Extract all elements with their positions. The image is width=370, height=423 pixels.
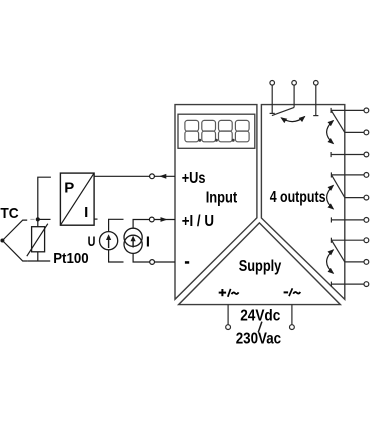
- thermocouple TC lower leg: [2, 241, 27, 262]
- wire junction up and to P/I upper stub: [38, 177, 51, 227]
- node A junction dot: [36, 217, 40, 221]
- resistor Pt100: [32, 227, 45, 252]
- contact tick terminal 13: [313, 115, 318, 117]
- terminal +Us: [150, 174, 155, 179]
- display U1 decimal points: [198, 139, 234, 142]
- arrow on +Us wire pointing left: [159, 174, 166, 179]
- svg-text:230Vac: 230Vac: [236, 331, 282, 348]
- relay K2 contact wires: [331, 108, 364, 157]
- module input section outline: [175, 105, 257, 300]
- supply terminal wire -/~: [291, 305, 293, 325]
- contact tick terminal 11: [270, 112, 275, 114]
- wire P/I output to +Us terminal: [94, 175, 150, 177]
- wire +I/U terminal to module with right arrow: [154, 219, 175, 221]
- right terminals 1-9: [364, 108, 369, 287]
- top terminal 13: [314, 81, 319, 86]
- relay K4 contact wires: [331, 238, 364, 287]
- svg-text:24Vdc: 24Vdc: [240, 308, 280, 325]
- relay K3 contact wires: [331, 172, 364, 222]
- wire minus terminal to module: [155, 261, 176, 263]
- thermocouple TC upper leg: [2, 220, 27, 240]
- svg-text:Pt100: Pt100: [53, 250, 88, 267]
- thermocouple junction dot: [0, 239, 4, 243]
- svg-text:P: P: [64, 180, 74, 197]
- relay K1 changeover arrow: [281, 117, 304, 122]
- terminal +I/U: [149, 217, 154, 222]
- label minus: [185, 261, 189, 264]
- relay K1 moving arm: [272, 107, 294, 115]
- wire junction to P/I input stub: [38, 218, 51, 220]
- svg-text:+I / U: +I / U: [182, 213, 214, 230]
- svg-text:I: I: [146, 235, 150, 251]
- svg-text:+Us: +Us: [182, 170, 206, 187]
- wire +Us terminal to module with left arrow: [154, 175, 175, 177]
- svg-text:Input: Input: [206, 189, 238, 206]
- source I double circle: [124, 228, 142, 246]
- display U1 digits 8.8.8.8: [185, 120, 249, 141]
- source U circle: [100, 232, 118, 250]
- wire U bottom stub: [109, 250, 124, 262]
- wire U top stub: [109, 219, 124, 231]
- top terminal 12: [292, 81, 297, 86]
- arrow on +I/U wire pointing right: [161, 217, 168, 222]
- top terminal 11: [270, 81, 275, 86]
- slash between 24Vdc and 230Vac: [258, 322, 262, 333]
- svg-text:TC: TC: [0, 206, 19, 222]
- relay K2 moving arm: [331, 110, 345, 132]
- wire from terminal 13 to contact: [315, 85, 317, 115]
- converter U2 diagonal: [60, 173, 94, 225]
- display U1 bezel: [178, 114, 255, 148]
- module output section outline: [261, 105, 344, 300]
- relay K4 moving arm: [331, 240, 344, 262]
- source I arrow: [132, 241, 134, 248]
- wire from terminal 11 to contact: [271, 85, 273, 113]
- supply terminal -/~: [290, 325, 295, 330]
- label +/~: [219, 289, 239, 297]
- supply terminal +/~: [226, 325, 231, 330]
- wire I bottom to terminal: [133, 253, 150, 262]
- faint dash on TC upper connection: [30, 218, 34, 220]
- relay K3 moving arm: [331, 175, 344, 198]
- converter U2 lower output stub: [94, 218, 97, 220]
- source U arrow: [108, 239, 110, 248]
- wire Pt100 bottom: [27, 252, 50, 261]
- relay K3 changeover arrow: [327, 185, 334, 209]
- relay K2 changeover arrow: [327, 121, 334, 144]
- resistor Pt100 diagonal: [27, 224, 48, 257]
- relay K4 changeover arrow: [327, 250, 334, 273]
- wire from terminal 12 common: [293, 85, 295, 107]
- svg-text:4 outputs: 4 outputs: [270, 189, 326, 206]
- svg-text:I: I: [84, 204, 88, 221]
- wire I top to terminal: [133, 220, 149, 229]
- converter U2 P/I box: [60, 173, 94, 225]
- module supply triangle outline: [179, 223, 341, 305]
- label -/~: [284, 288, 301, 296]
- svg-text:Supply: Supply: [239, 258, 282, 275]
- terminal minus: [150, 260, 155, 265]
- svg-text:U: U: [88, 233, 96, 249]
- supply terminal wire +/~: [227, 305, 229, 325]
